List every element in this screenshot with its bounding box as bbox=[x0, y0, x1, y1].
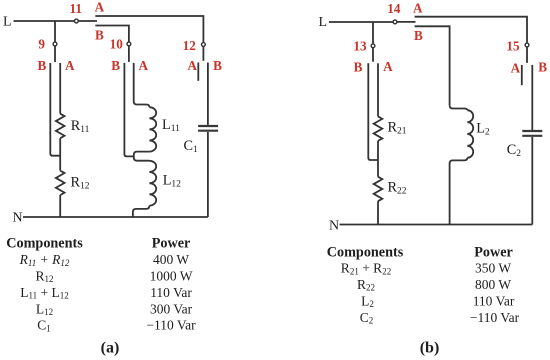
capacitor C1 bbox=[198, 125, 218, 127]
switch S10 pole stub bbox=[128, 46, 130, 62]
wire S14 contact B to L2 branch bbox=[415, 26, 450, 105]
wire L feed (a) bbox=[14, 20, 75, 22]
svg-text:13: 13 bbox=[353, 39, 367, 54]
svg-text:L11: L11 bbox=[162, 117, 180, 134]
svg-text:400 W: 400 W bbox=[153, 252, 189, 267]
svg-text:15: 15 bbox=[506, 39, 520, 54]
wire L12 to rail bbox=[133, 206, 150, 217]
wire N rail (a) bbox=[23, 216, 208, 218]
svg-text:R12: R12 bbox=[71, 175, 90, 192]
svg-text:B: B bbox=[414, 28, 423, 43]
svg-text:R22: R22 bbox=[388, 180, 407, 197]
switch S9 pole circle bbox=[53, 42, 57, 46]
wire branch 13 drop bbox=[372, 22, 374, 44]
svg-text:Power: Power bbox=[474, 244, 513, 260]
svg-text:9: 9 bbox=[38, 37, 45, 52]
svg-text:1000 W: 1000 W bbox=[150, 268, 193, 283]
switch S15 contact A stub bbox=[521, 65, 523, 85]
svg-text:A: A bbox=[65, 58, 75, 73]
switch S15 contact B wire bbox=[531, 65, 533, 130]
wire R21 to R22 bbox=[377, 141, 379, 177]
switch S11 pole circle bbox=[75, 19, 79, 23]
svg-text:Components: Components bbox=[327, 244, 404, 260]
svg-text:B: B bbox=[111, 58, 120, 73]
svg-text:A: A bbox=[95, 0, 105, 15]
wire R11 to R12 bbox=[59, 138, 61, 170]
svg-text:300 Var: 300 Var bbox=[150, 301, 193, 316]
svg-text:C1: C1 bbox=[184, 138, 199, 155]
switch S10 contact A wire bbox=[134, 63, 150, 107]
svg-text:12: 12 bbox=[183, 38, 197, 53]
switch S13 pole circle bbox=[371, 44, 375, 48]
svg-text:14: 14 bbox=[387, 1, 401, 16]
wire C2 to rail bbox=[531, 137, 533, 225]
switch S12 pole circle bbox=[202, 43, 206, 47]
svg-text:110 Var: 110 Var bbox=[473, 293, 515, 308]
inductor L11 bbox=[149, 107, 156, 151]
svg-text:R21: R21 bbox=[388, 120, 407, 137]
svg-text:R11 + R12: R11 + R12 bbox=[19, 252, 70, 268]
svg-text:B: B bbox=[213, 58, 222, 73]
wire branch 9 drop bbox=[54, 21, 56, 42]
svg-text:R12: R12 bbox=[35, 268, 53, 284]
svg-text:11: 11 bbox=[69, 1, 81, 16]
wire S14 contact A rail to S15 bbox=[415, 17, 527, 43]
svg-text:C2: C2 bbox=[507, 142, 522, 159]
wire S11 contact B to S10 bbox=[95, 26, 129, 42]
switch S9 pole stub bbox=[54, 46, 56, 62]
svg-text:L2: L2 bbox=[476, 121, 490, 138]
resistor R21 bbox=[374, 116, 383, 140]
svg-text:A: A bbox=[383, 59, 393, 74]
resistor R22 bbox=[374, 177, 383, 201]
svg-text:−110 Var: −110 Var bbox=[146, 318, 196, 333]
svg-text:N: N bbox=[13, 210, 23, 225]
svg-text:L12: L12 bbox=[163, 173, 181, 190]
switch S10 contact B wire bbox=[124, 63, 133, 156]
switch S12 contact B wire bbox=[207, 63, 209, 125]
switch S9 contact A wire bbox=[59, 63, 61, 114]
switch S11 pole arm bbox=[79, 20, 98, 22]
wire S11 contact A rail to S12 bbox=[95, 16, 203, 42]
wire L2 to rail bbox=[450, 158, 468, 225]
switch S13 pole stub bbox=[372, 48, 374, 62]
svg-text:L: L bbox=[319, 15, 328, 30]
svg-text:110 Var: 110 Var bbox=[150, 285, 192, 300]
svg-text:L2: L2 bbox=[361, 293, 374, 309]
switch S13 contact A wire bbox=[377, 63, 379, 116]
switch S15 pole circle bbox=[525, 43, 529, 47]
svg-text:B: B bbox=[538, 59, 547, 74]
svg-text:350 W: 350 W bbox=[475, 261, 511, 276]
svg-text:A: A bbox=[413, 1, 423, 16]
switch S12 contact A stub bbox=[197, 63, 199, 81]
svg-text:Components: Components bbox=[6, 236, 83, 252]
resistor R11 bbox=[56, 114, 65, 138]
svg-text:C1: C1 bbox=[37, 318, 51, 334]
switch S15 pole stub bbox=[526, 47, 528, 63]
svg-text:R21 + R22: R21 + R22 bbox=[341, 261, 391, 277]
switch S13 contact B wire bbox=[368, 63, 378, 160]
svg-text:Power: Power bbox=[152, 236, 191, 252]
resistor R12 bbox=[56, 171, 65, 195]
svg-text:B: B bbox=[38, 58, 47, 73]
wire R22 to rail bbox=[377, 201, 379, 224]
switch S9 contact B wire bbox=[50, 63, 60, 156]
wire L11 to L12 jog bbox=[134, 152, 150, 161]
svg-text:R11: R11 bbox=[71, 118, 90, 135]
wire L feed (b) bbox=[329, 21, 393, 23]
capacitor C2 bbox=[522, 130, 542, 132]
svg-text:−110 Var: −110 Var bbox=[470, 310, 520, 325]
svg-text:B: B bbox=[354, 60, 363, 75]
switch S12 pole stub bbox=[202, 47, 204, 61]
svg-text:(a): (a) bbox=[101, 339, 120, 356]
inductor L12 bbox=[149, 161, 156, 206]
switch S10 pole circle bbox=[127, 42, 131, 46]
svg-text:L12: L12 bbox=[36, 301, 53, 317]
svg-text:10: 10 bbox=[110, 37, 124, 52]
svg-text:L11 + L12: L11 + L12 bbox=[20, 285, 69, 301]
wire L2 top jog bbox=[450, 105, 468, 110]
svg-text:A: A bbox=[139, 58, 149, 73]
svg-text:(b): (b) bbox=[420, 339, 440, 356]
wire N rail (b) bbox=[340, 224, 533, 226]
svg-text:800 W: 800 W bbox=[475, 277, 511, 292]
switch S14 pole arm bbox=[397, 21, 415, 23]
wire C1 to rail bbox=[207, 132, 209, 217]
svg-text:R22: R22 bbox=[357, 277, 375, 293]
svg-text:C2: C2 bbox=[360, 310, 374, 326]
svg-text:A: A bbox=[511, 60, 521, 75]
svg-text:B: B bbox=[95, 28, 104, 43]
svg-text:N: N bbox=[329, 218, 339, 233]
inductor L2 bbox=[467, 110, 473, 158]
svg-text:L: L bbox=[3, 15, 12, 30]
wire R12 to rail bbox=[59, 195, 61, 217]
svg-text:A: A bbox=[187, 58, 197, 73]
switch S14 pole circle bbox=[393, 20, 397, 24]
